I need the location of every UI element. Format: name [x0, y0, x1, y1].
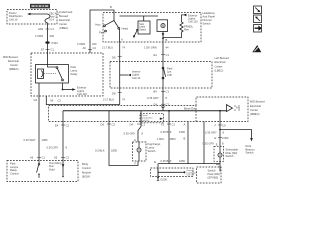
label 2 LT BLU 74 (upper): [102, 45, 125, 49]
svg-text:Electrical: Electrical: [215, 60, 226, 64]
svg-text:A6: A6: [50, 99, 54, 103]
MBEC right notch dashed: [196, 97, 248, 122]
label 0.30 GRY 8: [47, 145, 68, 149]
svg-text:Switch: Switch: [148, 149, 156, 153]
svg-text:Center: Center: [59, 22, 67, 26]
icon box 2: [254, 15, 262, 23]
svg-text:(LBEC): (LBEC): [215, 69, 224, 73]
svg-text:D8: D8: [112, 56, 116, 60]
BCM switch on WHT wire: [37, 164, 40, 178]
label Left Bussed Electrical Center (LBEC): [215, 56, 230, 73]
wire MBEC A9C2 up to headlamp switch B: [90, 10, 114, 53]
svg-text:Stop: Stop: [139, 23, 144, 26]
label 1 BLK 1850: [157, 137, 176, 141]
svg-text:Electrical: Electrical: [59, 18, 70, 22]
svg-text:Center: Center: [215, 64, 223, 68]
wire head contact down to A: [119, 29, 121, 42]
svg-text:Switch: Switch: [246, 151, 254, 155]
svg-text:C9: C9: [222, 123, 226, 127]
svg-text:Lamp: Lamp: [139, 27, 145, 29]
wire relay to exterior lights arrow: [62, 83, 76, 91]
svg-text:Center: Center: [10, 63, 18, 67]
svg-text:D6: D6: [101, 122, 105, 126]
svg-text:B: B: [184, 136, 186, 140]
label Underhood Bussed Electrical Center (UBEC): [59, 10, 73, 30]
label Fog/Cargo Lamp Switch: [148, 142, 161, 153]
BCM left text: [10, 161, 19, 175]
svg-text:B4: B4: [154, 90, 158, 94]
label Headlamp And Panel Dimmer Switch: [203, 11, 216, 25]
svg-text:0.30 WHT: 0.30 WHT: [24, 138, 36, 142]
svg-text:44: 44: [166, 45, 169, 49]
svg-text:340: 340: [50, 34, 55, 38]
label 0.35 GRY 8 (right low): [203, 141, 225, 145]
power distribution callout: [140, 113, 164, 123]
svg-text:Switch: Switch: [139, 28, 146, 31]
svg-text:And Panel: And Panel: [203, 14, 216, 18]
svg-text:C1: C1: [51, 48, 55, 52]
svg-text:Res: Res: [184, 28, 189, 32]
svg-text:74: 74: [122, 45, 125, 49]
dimmer lamp circle: [161, 24, 165, 28]
switch pack dashed box: [197, 161, 222, 183]
svg-text:Head: Head: [122, 26, 129, 30]
svg-text:C2: C2: [66, 156, 70, 160]
svg-text:Overriding: Overriding: [49, 161, 62, 165]
pin D4 C1: [130, 122, 146, 126]
svg-text:Switch: Switch: [226, 154, 234, 158]
label 2 LT BLU 74 (lower): [103, 97, 125, 101]
label Stop Lamp Switch: [139, 23, 146, 32]
svg-text:Switch: Switch: [203, 21, 211, 25]
pin A9 C2: [83, 46, 97, 50]
svg-text:G82: G82: [38, 27, 44, 31]
LBEC circuit breaker: [162, 67, 166, 79]
svg-text:C2: C2: [93, 46, 97, 50]
splice S433: [45, 41, 58, 45]
pin A5 C2: [54, 156, 69, 160]
resistor arrow to exterior lights: [182, 14, 187, 22]
svg-text:74: 74: [122, 97, 125, 101]
svg-text:G6: G6: [34, 98, 38, 102]
label 2 ORN 340 (upper): [77, 42, 97, 46]
svg-text:Roof: Roof: [246, 144, 252, 148]
svg-text:0.35 GRY: 0.35 GRY: [147, 96, 159, 100]
svg-text:Lamp: Lamp: [148, 146, 155, 150]
LBEC dashed box: [110, 62, 212, 89]
label Switch Pack SPVBS: [208, 168, 220, 179]
svg-text:Cell 14: Cell 14: [187, 175, 194, 177]
svg-text:E7: E7: [41, 48, 45, 52]
svg-text:G200: G200: [160, 177, 167, 181]
svg-text:Electrical: Electrical: [8, 59, 19, 63]
svg-text:Ride (SR): Ride (SR): [226, 151, 238, 155]
label 0.30 WHT 1380: [24, 138, 48, 142]
G200 ground: [157, 177, 168, 182]
svg-text:1 DK GRN: 1 DK GRN: [144, 45, 157, 49]
svg-text:C2: C2: [112, 122, 116, 126]
svg-text:0.35 GRY: 0.35 GRY: [203, 141, 215, 145]
label 0.35 GRY 8 (roof): [205, 131, 225, 135]
wire dimmer A down through LBEC: [119, 42, 121, 105]
svg-text:Electrical: Electrical: [250, 104, 261, 108]
brake switch blade: [133, 29, 138, 37]
svg-text:Cell 110: Cell 110: [77, 92, 87, 96]
ground wire from F2 C1: [168, 111, 170, 164]
svg-text:2 LT BLU: 2 LT BLU: [103, 97, 114, 101]
pin B4 C1: [154, 90, 170, 94]
BCM dashed box: [7, 161, 78, 182]
wire ground rail to G200: [157, 164, 159, 178]
park lamp relay box: [36, 65, 69, 84]
label Exterior Lights Cell 110 (top): [188, 13, 198, 23]
svg-text:C1: C1: [142, 122, 146, 126]
fog switch lamp: [137, 142, 141, 161]
pin A6 C1: [30, 156, 45, 160]
pin E7 C1: [41, 48, 54, 52]
svg-text:C1: C1: [172, 122, 176, 126]
selectable lamp: [218, 147, 222, 163]
ground rail: [158, 163, 220, 165]
pin F C9: [215, 123, 226, 127]
label 2 ORN 340: [35, 34, 54, 38]
bus feed rail to MBEC triangle: [162, 106, 170, 112]
label 0.35 GRY 8 (fog): [124, 131, 144, 135]
svg-text:Left Bussed: Left Bussed: [215, 56, 230, 60]
svg-text:D8: D8: [112, 91, 116, 95]
svg-text:Park: Park: [71, 65, 77, 69]
label 0.35 GRY 8 (mid): [147, 96, 168, 100]
BCM right text: [49, 161, 62, 172]
MBEC dashed box: [31, 53, 103, 96]
wire dimmer B down (1 DK GRN): [162, 42, 164, 105]
fuse F2: [45, 14, 50, 24]
svg-text:E: E: [216, 143, 218, 147]
selectable switch dashed box: [214, 146, 224, 161]
label 1 DK GRN 44: [144, 45, 169, 49]
label Park Lamp Relay: [71, 65, 79, 76]
svg-text:P433: P433: [52, 41, 59, 45]
svg-text:Park: Park: [99, 30, 105, 34]
svg-text:Lamp: Lamp: [71, 69, 78, 73]
label Exterior Lights Cell 110: [77, 86, 87, 96]
svg-text:Switch: Switch: [208, 168, 216, 172]
label MID Bussed Electrical Center (MBEC): [3, 55, 19, 71]
svg-text:C1: C1: [51, 27, 55, 31]
ground wire from A pin: [187, 122, 189, 164]
svg-text:C450: C450: [222, 136, 229, 140]
pin D8 (bottom): [112, 91, 122, 95]
svg-text:(MBEC): (MBEC): [250, 112, 260, 116]
svg-text:Lamps: Lamps: [10, 165, 19, 169]
svg-text:1380: 1380: [42, 138, 48, 142]
svg-text:(BCM): (BCM): [82, 175, 90, 179]
relay coil: [38, 69, 44, 79]
svg-text:Dimmer: Dimmer: [203, 18, 213, 22]
svg-text:E: E: [154, 160, 156, 164]
lamp output arrow down: [162, 32, 165, 43]
svg-text:F2: F2: [161, 122, 165, 126]
fog lamp feed wire D4 C1: [138, 111, 141, 142]
label Selectable Ride SR Switch: [226, 147, 239, 158]
headlamp switch contacts: [104, 21, 120, 32]
svg-text:Run: Run: [49, 164, 54, 168]
svg-text:C1: C1: [166, 90, 170, 94]
svg-text:Pack (DD): Pack (DD): [208, 172, 220, 176]
svg-text:2 ORN: 2 ORN: [77, 42, 85, 46]
relay contact: [44, 53, 63, 81]
pin F2 C1: [161, 122, 175, 126]
svg-text:D4: D4: [130, 122, 134, 126]
banner HOT AT ALL TIMES: [30, 4, 50, 9]
svg-text:0.35 BLK: 0.35 BLK: [161, 130, 172, 134]
svg-text:Relay: Relay: [10, 168, 18, 172]
svg-text:C1: C1: [166, 53, 170, 57]
pin E4 C1: [154, 53, 170, 57]
svg-text:Block Ent: Block Ent: [184, 107, 196, 111]
label PRNDL Res: [184, 24, 194, 31]
connector E C450: [215, 136, 229, 140]
svg-text:Fog/Cargo: Fog/Cargo: [148, 142, 161, 146]
svg-text:Hold: Hold: [49, 168, 55, 172]
label 0.35 BLK 1850: [161, 130, 186, 134]
labels Auto Park Head: [95, 22, 128, 34]
svg-text:Control: Control: [10, 172, 19, 176]
svg-text:1800: 1800: [170, 137, 176, 141]
svg-text:(SPVBS): (SPVBS): [208, 175, 219, 179]
svg-text:10 A: 10 A: [49, 18, 54, 21]
pin D4 C3: [154, 102, 170, 106]
bus bar: [63, 110, 227, 112]
BCM sensor on GRY wire: [62, 163, 65, 178]
svg-text:Module: Module: [82, 170, 91, 174]
svg-text:0.30 GRY: 0.30 GRY: [47, 145, 59, 149]
svg-text:Underhood: Underhood: [59, 10, 73, 14]
pin E4 C2: [55, 123, 69, 127]
svg-text:2 LT BLU: 2 LT BLU: [102, 45, 113, 49]
label Power Distribution Cell 10: [9, 11, 23, 21]
svg-text:Control: Control: [82, 166, 91, 170]
svg-text:1 BLK: 1 BLK: [157, 137, 165, 141]
fog cargo switch dashed box: [133, 142, 147, 161]
svg-text:A: A: [121, 38, 123, 42]
ground wire from B pin: [203, 122, 205, 164]
label 0.5 BLK 1850: [95, 148, 117, 152]
svg-text:Park: Park: [10, 161, 16, 165]
wire MBEC A6C2 to LBEC feed (2 LT BLU): [46, 96, 119, 105]
label MID Bussed Electrical Center MBEC (right): [250, 100, 265, 117]
svg-text:Body: Body: [82, 162, 89, 166]
svg-text:0.35 BLK: 0.35 BLK: [161, 159, 172, 163]
svg-text:0.5 BLK: 0.5 BLK: [95, 148, 105, 152]
interior lights arrow: [120, 69, 141, 79]
svg-text:Cell 10: Cell 10: [142, 120, 150, 122]
svg-text:1650: 1650: [179, 130, 185, 134]
wire arrow to fuse: [27, 13, 47, 15]
svg-text:Cell 14: Cell 14: [132, 76, 141, 80]
svg-text:Cell 10: Cell 10: [9, 17, 18, 21]
svg-text:(MBEC): (MBEC): [9, 67, 19, 71]
wire relay coil to BCM (WHT): [38, 83, 40, 164]
dimmer resistor: [163, 22, 183, 38]
label TBC ACCY Fuse 2 10A: [49, 12, 60, 21]
pin G82 C1: [38, 27, 54, 31]
UBEC dashed box: [7, 10, 57, 25]
svg-text:Relay: Relay: [71, 72, 79, 76]
svg-text:E4: E4: [55, 123, 59, 127]
svg-text:C/B: C/B: [167, 73, 172, 77]
svg-text:(UBEC): (UBEC): [59, 26, 68, 30]
svg-text:A9: A9: [83, 46, 87, 50]
bus left drop to BCM: [62, 111, 64, 163]
brake switch inner box: [138, 16, 150, 34]
svg-text:A: A: [184, 122, 186, 126]
label Body Control Module (BCM): [82, 162, 91, 179]
driver triangle into MBEC: [227, 105, 241, 112]
svg-text:A5: A5: [54, 156, 58, 160]
fog feed wire D6 C2: [109, 111, 138, 166]
icon box 3 right arrow: [254, 25, 262, 33]
svg-text:H: H: [134, 138, 136, 142]
pin D6 C2: [101, 122, 116, 126]
junction block dashed box: [49, 106, 197, 122]
wire fuse to MBEC: [47, 24, 49, 54]
svg-text:A6: A6: [30, 156, 34, 160]
label Park Lamps C/B: [167, 66, 173, 76]
svg-text:E4: E4: [154, 53, 158, 57]
interior feed rail: [120, 15, 159, 17]
roof branch: [219, 129, 253, 142]
svg-text:B: B: [166, 38, 168, 42]
svg-text:B: B: [110, 5, 112, 9]
svg-text:0.35 GRY: 0.35 GRY: [124, 131, 136, 135]
svg-text:Center: Center: [250, 108, 258, 112]
pin D8 (top): [112, 56, 122, 60]
dimmer lamp box: [157, 20, 168, 32]
svg-text:C2: C2: [58, 99, 62, 103]
svg-text:C1: C1: [42, 156, 46, 160]
svg-text:MID Bussed: MID Bussed: [3, 55, 18, 59]
headlamp dimmer switch dashed box: [103, 13, 201, 43]
icon up-right box 1: [254, 6, 262, 14]
svg-text:Beacon: Beacon: [246, 147, 256, 151]
svg-text:Auto: Auto: [95, 22, 101, 26]
svg-text:Headlamp: Headlamp: [203, 11, 216, 15]
svg-text:2 ORN: 2 ORN: [35, 34, 43, 38]
svg-text:Bussed: Bussed: [59, 14, 68, 18]
label Roof Beacon Switch: [246, 144, 256, 155]
icon black triangle: [252, 45, 261, 52]
svg-text:MID Bussed: MID Bussed: [250, 100, 265, 104]
svg-text:0.35 GRY: 0.35 GRY: [205, 131, 217, 135]
right column wire F C9: [219, 111, 221, 147]
svg-text:Selectable: Selectable: [226, 147, 239, 151]
svg-text:340: 340: [92, 42, 97, 46]
svg-text:1850: 1850: [111, 148, 117, 152]
svg-text:E: E: [215, 136, 217, 140]
pin A6 C2: [50, 99, 61, 103]
ground distribution callout: [151, 168, 198, 177]
svg-text:1650: 1650: [179, 159, 185, 163]
svg-text:Cell 110: Cell 110: [188, 19, 198, 23]
label 0.35 BLK 1650 (low): [161, 159, 186, 163]
svg-text:C2: C2: [66, 123, 70, 127]
